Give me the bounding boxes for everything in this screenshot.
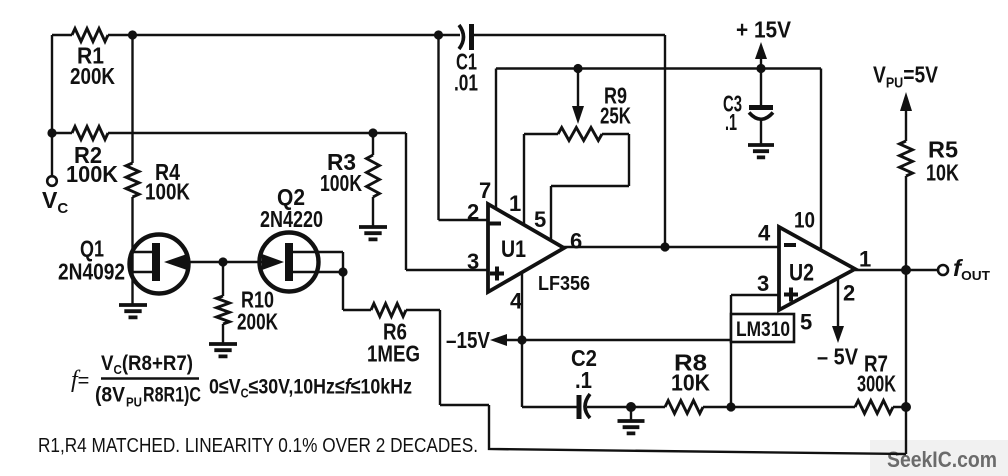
capacitor C2 .1: [577, 395, 582, 419]
wire -15V rail: [505, 339, 731, 341]
wire U2 pin2 stem to -5V: [837, 278, 839, 328]
LM310 label box: [731, 314, 794, 342]
wire Vc vertical: [51, 35, 53, 176]
wire gate node row Q1-Q2: [184, 261, 270, 263]
svg-text:R1,R4 MATCHED. LINEARITY 0.1%: R1,R4 MATCHED. LINEARITY 0.1% OVER 2 DEC…: [38, 435, 478, 457]
node pin3/bottom row junction: [726, 402, 735, 411]
svg-text:7: 7: [479, 178, 491, 203]
wire R9 right arm to pin5: [551, 134, 629, 241]
svg-text:3: 3: [467, 249, 479, 274]
wire R9 left arm to pin1: [524, 134, 558, 225]
U1 plus sign: [490, 267, 504, 281]
terminal fOUT open circle: [938, 265, 948, 275]
node Vc/R2 junction: [47, 128, 56, 137]
svg-text:LM310: LM310: [736, 318, 790, 341]
node U1 pin4/-15V junction: [517, 335, 526, 344]
svg-text:1MEG: 1MEG: [367, 341, 420, 367]
terminal Vc open circle: [47, 176, 57, 186]
wire R5 branch: [905, 110, 907, 270]
resistor R10 200K: [217, 296, 230, 324]
U2 plus sign: [784, 288, 798, 302]
capacitor C1 .01: [459, 25, 464, 49]
wire U1 pin7 to +15V rail to U2 pin10: [496, 69, 821, 251]
wire R9 wiper stem: [577, 69, 579, 110]
node U1 output/C1 feedback junction: [660, 242, 669, 251]
svg-text:100K: 100K: [320, 170, 362, 196]
wire R1/R4 branch vertical: [131, 35, 133, 305]
svg-text:4: 4: [510, 289, 523, 314]
arrow -5V (down): [832, 326, 844, 343]
arrow Vpu (up): [900, 92, 912, 111]
wire R10 stem: [222, 262, 224, 344]
svg-text:2N4220: 2N4220: [260, 206, 323, 232]
svg-text:.01: .01: [454, 70, 478, 96]
resistor R4 100K: [126, 163, 139, 197]
resistor R6 1MEG: [371, 304, 406, 317]
svg-text:– 5V: – 5V: [817, 344, 859, 370]
transistor Q1 channel bar: [152, 243, 160, 281]
resistor R1 200K: [72, 29, 108, 42]
svg-text:6: 6: [570, 229, 582, 254]
formula fraction bar: [101, 377, 199, 380]
wire Q2 drain/source stubs join: [292, 252, 343, 272]
arrow -15V (left): [490, 334, 507, 346]
resistor R5 10K: [900, 141, 913, 176]
capacitor C3 .1: [749, 105, 773, 110]
svg-text:.1: .1: [575, 367, 592, 393]
wire output node vertical fOUT to bottom: [905, 270, 907, 454]
transistor Q2 gate arrowhead: [262, 254, 284, 270]
wire C3 branch: [760, 69, 762, 146]
node Q2 drain-source junction: [338, 267, 347, 276]
svg-text:R8R1)C: R8R1)C: [143, 384, 201, 407]
svg-text:LF356: LF356: [538, 273, 590, 295]
svg-text:25K: 25K: [600, 103, 631, 129]
svg-text:10K: 10K: [671, 370, 710, 396]
svg-text:300K: 300K: [857, 371, 896, 397]
svg-text:f=: f=: [71, 367, 89, 393]
svg-text:VPU=5V: VPU=5V: [873, 62, 939, 92]
wire C2/R8/R7 bottom row: [522, 406, 906, 408]
svg-text:5: 5: [534, 207, 546, 232]
svg-text:2: 2: [843, 281, 855, 306]
svg-text:2N4092: 2N4092: [58, 259, 125, 285]
node gate/R10 junction: [218, 257, 227, 266]
transistor Q1 2N4092 circle: [130, 235, 189, 294]
svg-text:.1: .1: [725, 109, 737, 135]
ground below C3: [748, 145, 774, 157]
node +15V/C3 junction: [756, 64, 765, 73]
U2 minus sign: [784, 243, 796, 247]
transistor Q2 channel bar: [285, 243, 293, 281]
svg-text:100K: 100K: [66, 161, 118, 187]
arrow +15V (up): [755, 42, 767, 59]
wire R3 branch: [372, 133, 374, 227]
node fOUT/R5 junction: [901, 265, 911, 275]
ground at C2 node: [618, 421, 645, 433]
watermark background tint: [870, 440, 1008, 476]
ground below R3: [359, 227, 387, 239]
wire top rail from Vc to C1 and down to U1 output (node A): [52, 35, 665, 247]
wire U1 output row to U2 pin4: [563, 246, 779, 248]
svg-text:200K: 200K: [70, 63, 115, 89]
svg-text:3: 3: [757, 271, 769, 296]
svg-text:10K: 10K: [926, 160, 959, 186]
node R1 top rail junction: [128, 30, 137, 39]
wire C2 ground stem: [630, 407, 632, 421]
svg-text:5: 5: [800, 310, 812, 335]
svg-text:PU: PU: [126, 395, 142, 410]
node R7/output junction: [901, 402, 911, 412]
svg-text:4: 4: [758, 221, 771, 246]
svg-text:(8V: (8V: [95, 384, 125, 407]
svg-text:+ 15V: + 15V: [736, 17, 792, 43]
svg-text:2: 2: [467, 200, 479, 225]
svg-text:1: 1: [859, 247, 871, 272]
transistor Q2 2N4220 circle: [260, 233, 319, 292]
svg-text:100K: 100K: [145, 179, 190, 205]
node C1 left junction: [434, 30, 443, 39]
svg-text:0≤VC≤30V,10Hz≤f≤10kHz: 0≤VC≤30V,10Hz≤f≤10kHz: [209, 376, 412, 401]
node C2/ground junction: [626, 402, 636, 412]
wire Q2 node to R6 and bottom loop to output node: [343, 272, 906, 454]
svg-text:200K: 200K: [237, 309, 278, 335]
ground below R10: [209, 344, 237, 356]
svg-text:U2: U2: [789, 260, 814, 287]
U1 minus sign: [489, 222, 501, 226]
wire Q1 drain/source stubs: [133, 252, 154, 272]
wire U1 pin4 down to C2 row: [521, 272, 523, 407]
wire U2 pin3 loop: [731, 295, 779, 407]
resistor R2 100K: [72, 127, 108, 140]
resistor R9 25K potentiometer: [558, 128, 602, 141]
arrow R9 wiper (down): [572, 106, 584, 124]
ground below Q1: [119, 305, 147, 317]
wire C1 feedback to U1 pin2: [439, 35, 489, 220]
op-amp U2 LM310 triangle: [779, 227, 855, 310]
node R9 wiper junction: [573, 64, 582, 73]
wire +15V stem: [760, 57, 762, 69]
resistor R3 100K: [367, 155, 380, 197]
svg-text:10: 10: [794, 208, 815, 233]
resistor R7 300K: [855, 401, 893, 414]
op-amp U1 LF356 triangle: [488, 204, 564, 292]
node R3 top junction: [368, 128, 377, 137]
wire R2 row to U1 pin3: [52, 133, 488, 270]
svg-text:1: 1: [509, 191, 521, 216]
svg-text:U1: U1: [501, 236, 526, 263]
svg-text:–15V: –15V: [446, 327, 491, 353]
wire U2 output row to fOUT: [855, 269, 938, 271]
transistor Q1 gate arrowhead: [164, 254, 187, 270]
resistor R8 10K: [665, 401, 703, 414]
svg-text:SeekIC.com: SeekIC.com: [887, 447, 997, 472]
